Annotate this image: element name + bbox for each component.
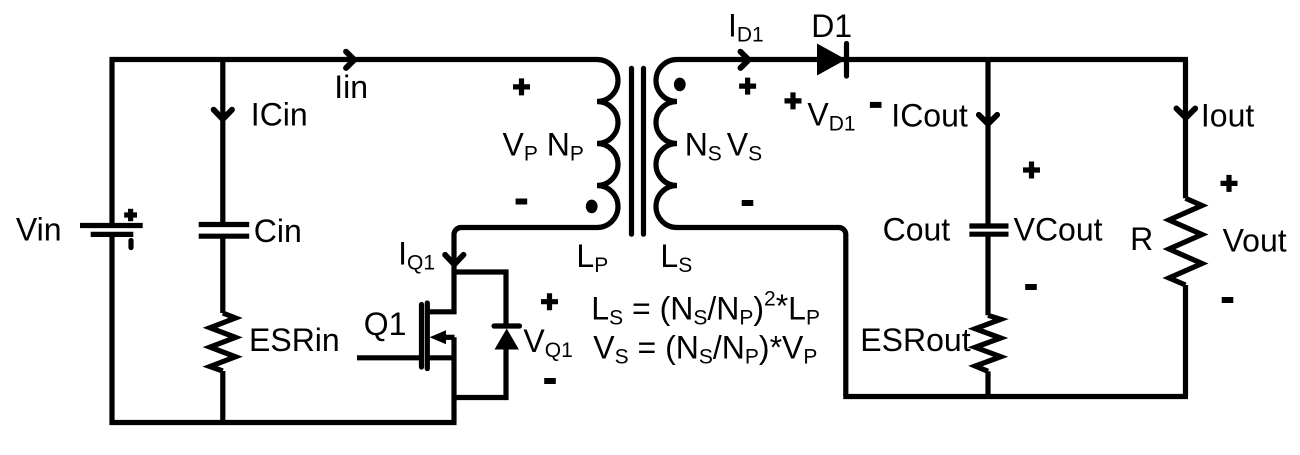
svg-text:ESRin: ESRin <box>249 322 340 358</box>
svg-text:ICout: ICout <box>891 98 968 134</box>
svg-text:VS: VS <box>727 127 762 166</box>
svg-text:Q1: Q1 <box>364 306 407 342</box>
svg-text:LP: LP <box>576 238 608 277</box>
svg-text:Iin: Iin <box>334 69 368 105</box>
svg-text:NS: NS <box>685 127 722 166</box>
svg-text:VS = (NS/NP)*VP: VS = (NS/NP)*VP <box>593 329 817 368</box>
svg-text:ESRout: ESRout <box>860 322 970 358</box>
svg-text:ICin: ICin <box>251 97 308 133</box>
svg-text:Vout: Vout <box>1223 223 1287 259</box>
svg-text:LS: LS <box>660 238 692 277</box>
svg-text:VQ1: VQ1 <box>523 323 572 362</box>
svg-text:Cin: Cin <box>254 213 302 249</box>
svg-text:VCout: VCout <box>1014 212 1103 248</box>
svg-text:D1: D1 <box>811 8 852 44</box>
svg-text:Cout: Cout <box>883 212 951 248</box>
svg-text:VD1: VD1 <box>807 96 855 135</box>
svg-text:ID1: ID1 <box>728 7 764 46</box>
svg-text:R: R <box>1130 221 1153 257</box>
svg-text:Iout: Iout <box>1201 98 1254 134</box>
svg-text:Vin: Vin <box>16 211 62 247</box>
svg-text:IQ1: IQ1 <box>398 236 435 275</box>
svg-text:VP NP: VP NP <box>503 127 584 166</box>
svg-text:LS = (NS/NP)2*LP: LS = (NS/NP)2*LP <box>591 288 820 330</box>
